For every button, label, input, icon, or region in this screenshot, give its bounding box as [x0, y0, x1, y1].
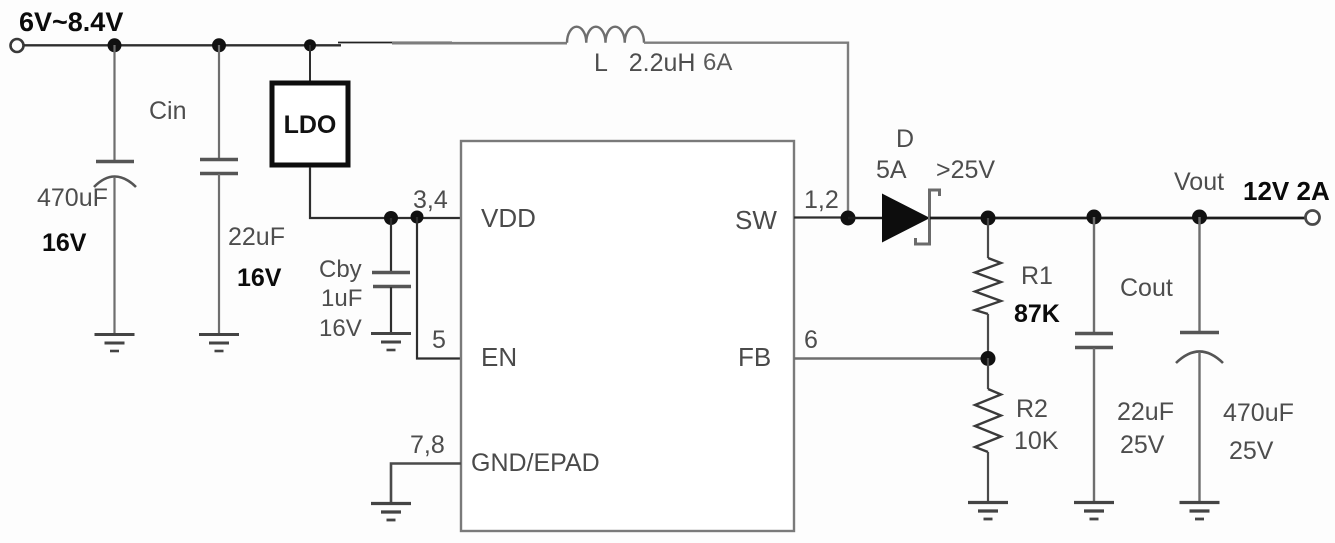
- LDO block: [272, 83, 348, 165]
- svg-text:7,8: 7,8: [410, 431, 445, 459]
- wire SW pin: [794, 216, 848, 218]
- ground under Cout2: [1180, 503, 1220, 520]
- ground under EPAD: [371, 504, 411, 521]
- resistor R2 wire top: [987, 358, 989, 389]
- svg-text:87K: 87K: [1014, 300, 1060, 328]
- capacitor Cin2 plate top: [200, 158, 238, 161]
- capacitor Cout1 wire bottom: [1093, 348, 1095, 501]
- svg-text:L 2.2uH: L 2.2uH: [594, 49, 695, 77]
- resistor R2 wire bottom: [987, 452, 989, 501]
- capacitor Cin 470uF plate top: [96, 160, 134, 163]
- svg-text:6V~8.4V: 6V~8.4V: [19, 7, 123, 37]
- resistor R1 zigzag: [975, 258, 1001, 314]
- wire EN branch: [417, 217, 461, 359]
- svg-text:16V: 16V: [319, 315, 362, 342]
- svg-text:22uF: 22uF: [228, 223, 285, 251]
- IC U1 body: [461, 141, 794, 531]
- capacitor Cout2 plate top: [1180, 331, 1219, 334]
- svg-text:VDD: VDD: [481, 203, 536, 233]
- wire top rail left: [24, 44, 341, 46]
- capacitor Cin2 wire bottom: [218, 174, 220, 333]
- capacitor Cout1 22uF wire top: [1093, 217, 1095, 332]
- svg-text:Vout: Vout: [1174, 168, 1224, 196]
- output terminal: [1306, 211, 1320, 225]
- capacitor Cin2 22uF wire top: [218, 45, 220, 159]
- capacitor Cout2 curved plate: [1176, 352, 1223, 364]
- ground under Cout1: [1074, 503, 1114, 520]
- ground under Cin1: [95, 335, 135, 352]
- diode D schottky cathode bar: [916, 190, 940, 244]
- svg-text:1,2: 1,2: [804, 186, 839, 214]
- resistor R1 wire bottom: [987, 314, 989, 358]
- inductor L 2.2uH: [567, 27, 644, 43]
- node dot FB divider: [981, 351, 996, 366]
- svg-text:Cby: Cby: [319, 256, 362, 283]
- capacitor Cout2 470uF wire top: [1198, 217, 1200, 331]
- svg-text:12V 2A: 12V 2A: [1243, 176, 1330, 206]
- svg-text:25V: 25V: [1120, 431, 1165, 459]
- capacitor Cin 470uF curved plate: [94, 177, 136, 188]
- capacitor Cby wire bottom: [390, 287, 392, 332]
- svg-text:470uF: 470uF: [37, 184, 108, 212]
- ground under Cin2: [199, 335, 239, 352]
- node dot VDD/EN branch: [411, 211, 424, 224]
- wire FB: [794, 357, 988, 359]
- capacitor Cin2 plate bottom: [200, 172, 238, 175]
- node dot input rail 3 (LDO tap): [304, 39, 316, 51]
- wire GND/EPAD: [391, 464, 461, 503]
- node dot R1 top: [981, 211, 996, 226]
- wire top rail right: [392, 42, 567, 45]
- svg-text:R1: R1: [1021, 262, 1053, 290]
- svg-text:1uF: 1uF: [321, 285, 362, 312]
- svg-text:Cout: Cout: [1120, 274, 1173, 302]
- diode D anode triangle: [882, 194, 930, 243]
- svg-text:16V: 16V: [42, 229, 87, 257]
- ground under Cby: [371, 334, 411, 351]
- svg-text:SW: SW: [735, 205, 777, 235]
- capacitor Cby wire top: [390, 218, 392, 271]
- capacitor Cin 470uF wire bottom: [113, 177, 115, 333]
- svg-text:>25V: >25V: [936, 156, 995, 184]
- wire LDO top riser: [309, 45, 311, 81]
- node dot Cout1 top: [1087, 210, 1102, 225]
- wire top rail thin overlap: [338, 42, 452, 44]
- wire diode to output terminal: [930, 217, 1306, 220]
- svg-text:16V: 16V: [237, 264, 282, 292]
- capacitor Cout1 plate bottom: [1075, 346, 1113, 349]
- capacitor Cout2 wire bottom: [1198, 352, 1200, 501]
- svg-text:FB: FB: [738, 342, 771, 372]
- svg-text:470uF: 470uF: [1223, 399, 1294, 427]
- capacitor Cby plate bottom: [373, 285, 411, 288]
- svg-text:6A: 6A: [703, 49, 732, 76]
- svg-text:R2: R2: [1016, 395, 1048, 423]
- svg-text:3,4: 3,4: [413, 186, 448, 214]
- resistor R1 wire top: [987, 218, 989, 258]
- wire LDO bottom riser: [310, 167, 461, 218]
- input terminal: [11, 39, 24, 52]
- node dot SW: [841, 211, 856, 226]
- svg-text:D: D: [896, 125, 914, 153]
- node dot VDD/Cby: [384, 211, 398, 225]
- svg-text:Cin: Cin: [149, 97, 187, 125]
- resistor R2 zigzag: [975, 389, 1001, 452]
- svg-text:22uF: 22uF: [1117, 398, 1174, 426]
- svg-text:5: 5: [432, 326, 446, 354]
- capacitor Cby plate top: [372, 271, 410, 274]
- svg-text:10K: 10K: [1014, 427, 1059, 455]
- ground under R2: [968, 503, 1008, 520]
- wire SW node to diode: [848, 217, 882, 220]
- node dot input rail 2: [212, 38, 226, 52]
- svg-text:GND/EPAD: GND/EPAD: [471, 449, 600, 477]
- svg-text:25V: 25V: [1229, 437, 1274, 465]
- svg-text:6: 6: [804, 326, 818, 354]
- svg-text:5A: 5A: [876, 156, 907, 184]
- svg-text:LDO: LDO: [284, 111, 337, 139]
- capacitor Cout1 plate top: [1075, 332, 1113, 335]
- node dot Cout2 top: [1192, 210, 1207, 225]
- node dot input rail 1: [108, 38, 122, 52]
- wire inductor to SW corner: [644, 43, 848, 213]
- capacitor Cin 470uF wire top: [113, 45, 115, 160]
- svg-text:EN: EN: [481, 342, 517, 372]
